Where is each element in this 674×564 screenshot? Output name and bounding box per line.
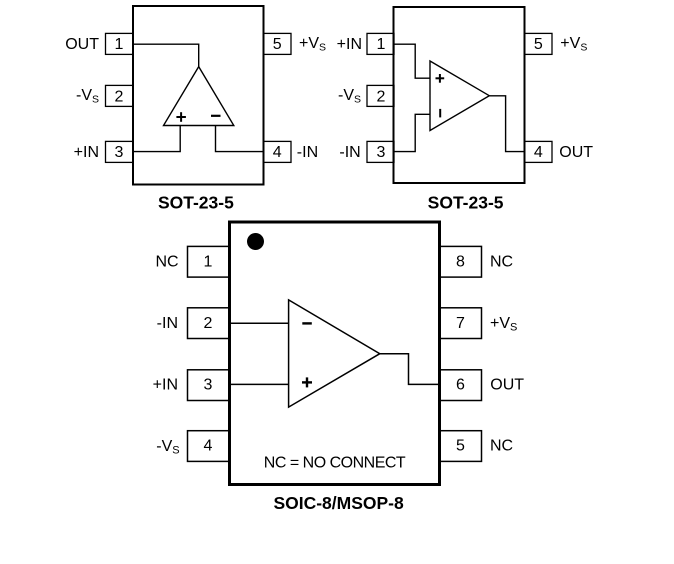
- svg-text:-IN: -IN: [157, 315, 178, 332]
- svg-text:5: 5: [534, 36, 543, 53]
- svg-text:SOIC-8/MSOP-8: SOIC-8/MSOP-8: [273, 493, 404, 513]
- svg-text:-IN: -IN: [297, 144, 318, 161]
- svg-text:4: 4: [534, 144, 543, 161]
- svg-text:8: 8: [456, 254, 465, 271]
- svg-text:1: 1: [204, 254, 213, 271]
- svg-text:OUT: OUT: [490, 376, 524, 393]
- svg-text:SOT-23-5: SOT-23-5: [158, 193, 234, 213]
- svg-text:2: 2: [115, 88, 124, 105]
- svg-text:6: 6: [456, 376, 465, 393]
- svg-text:-IN: -IN: [339, 144, 360, 161]
- svg-text:1: 1: [376, 36, 385, 53]
- svg-text:3: 3: [376, 144, 385, 161]
- svg-text:2: 2: [376, 88, 385, 105]
- svg-text:3: 3: [115, 144, 124, 161]
- svg-text:NC: NC: [155, 254, 178, 271]
- svg-text:1: 1: [115, 36, 124, 53]
- svg-text:4: 4: [204, 438, 213, 455]
- svg-text:+IN: +IN: [337, 36, 362, 53]
- svg-text:+IN: +IN: [153, 376, 178, 393]
- svg-text:OUT: OUT: [65, 36, 99, 53]
- svg-text:4: 4: [273, 144, 282, 161]
- svg-text:3: 3: [204, 376, 213, 393]
- svg-text:SOT-23-5: SOT-23-5: [428, 193, 504, 213]
- svg-text:NC: NC: [490, 254, 513, 271]
- svg-text:7: 7: [456, 315, 465, 332]
- svg-text:5: 5: [273, 36, 282, 53]
- svg-text:5: 5: [456, 438, 465, 455]
- svg-text:NC = NO CONNECT: NC = NO CONNECT: [264, 454, 406, 471]
- svg-text:NC: NC: [490, 438, 513, 455]
- svg-text:+IN: +IN: [74, 144, 99, 161]
- svg-text:OUT: OUT: [559, 144, 593, 161]
- svg-text:2: 2: [204, 315, 213, 332]
